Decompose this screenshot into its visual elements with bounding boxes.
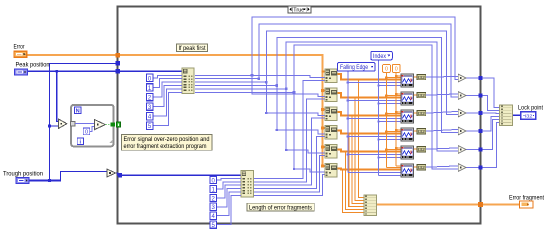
- svg-text:Trough position: Trough position: [3, 171, 44, 178]
- index array 1 (peak positions): [182, 68, 194, 94]
- tunnels: add-triangle outputs on right border: [478, 76, 482, 170]
- svg-text:I32: I32: [418, 111, 425, 116]
- svg-text:Error: Error: [14, 44, 25, 51]
- for loop iteration terminal i: [77, 138, 83, 145]
- wire: 0 to inner triangle lower input: [90, 126, 95, 131]
- to-I32 conversion 6: [417, 165, 426, 170]
- build array (error fragments): [364, 195, 377, 216]
- numeric constant 0 (first): [383, 64, 391, 72]
- svg-text:I32: I32: [418, 75, 425, 80]
- array subset 3: [325, 107, 337, 120]
- wires: index-array-2 element outputs up to array-subset length inputs: [254, 99, 325, 195]
- wire: Peak position I32-array to index-array 1: [28, 70, 182, 72]
- add node on border (trough path): [107, 169, 115, 177]
- to-I32 conversion 5: [417, 147, 426, 152]
- build array (lock points): [500, 105, 513, 126]
- case structure (outer): [118, 7, 481, 224]
- wire: index-array-2 first element riser x=302.4: [254, 81, 325, 179]
- wire: trough branch up x=49.5 to tunnel y=63.4, tap to triangle bottom input: [48, 63, 120, 182]
- trigger detection VI 2: [401, 92, 414, 105]
- index array 2 (trough positions): [241, 171, 254, 198]
- trigger detection VI 5: [401, 146, 414, 159]
- svg-text:0: 0: [395, 67, 398, 73]
- svg-text:I32: I32: [418, 93, 425, 98]
- to-I32 conversion 4: [417, 129, 426, 134]
- wire: boolean result to loop edge: [105, 123, 111, 125]
- array subset 5: [325, 145, 337, 158]
- array subset 2: [325, 88, 337, 101]
- add node 1: [458, 74, 466, 82]
- array subset 4: [325, 126, 337, 139]
- greater-than triangle (in loop): [95, 120, 106, 130]
- to-I32 conversion 1: [417, 75, 426, 80]
- ring constant "Falling Edge": [338, 63, 376, 72]
- trigger detection VI 1: [401, 74, 414, 87]
- control terminal: Error: [14, 44, 27, 58]
- add node 4: [458, 127, 466, 135]
- trigger detection VI 6: [401, 164, 414, 177]
- svg-text:If peak first: If peak first: [179, 46, 206, 52]
- add node 5: [458, 146, 466, 154]
- svg-text:Index: Index: [373, 54, 386, 60]
- wires: riser columns up over the top band down to add-triangle second inputs: [251, 17, 458, 169]
- wire: peak branch down to compare triangle top input: [55, 70, 58, 122]
- numeric constants 0-5 for index array 2: [210, 177, 241, 230]
- for loop: [71, 105, 113, 146]
- wires: index-array-1 element outputs to array-subset 1 inputs: [195, 75, 325, 92]
- to-I32 conversion 2: [417, 93, 426, 98]
- wires: array-subset outputs to trigger-VI inputs, with branches down to bottom build-array: [337, 74, 401, 212]
- array subset 6: [325, 164, 337, 177]
- trigger detection VI 4: [401, 128, 414, 141]
- numeric constant 0 (second): [392, 64, 400, 72]
- wires: VI outputs through I32 conversions to add triangles: [414, 76, 459, 167]
- svg-text:I32: I32: [418, 147, 425, 152]
- indicator terminal: Error fragment: [509, 194, 544, 208]
- svg-text:Lock point: Lock point: [518, 105, 543, 112]
- wire: trough riser x=60.5 to border add node: [61, 172, 108, 181]
- for loop count terminal N: [74, 107, 81, 114]
- add node 6: [458, 164, 466, 172]
- svg-text:0: 0: [85, 130, 88, 136]
- numeric constants 0-5 for index array 1: [146, 74, 182, 130]
- tunnel: Peak in: [116, 69, 121, 74]
- label: Length of error fragments: [247, 203, 314, 211]
- wire: bottom build-array output to Error fragment terminal: [377, 202, 520, 206]
- wire: Trough position I32-array into structure to index-array 2: [27, 173, 241, 181]
- to-I32 conversion 3: [417, 111, 426, 116]
- trigger detection VI 3: [401, 110, 414, 123]
- tunnel on loop left edge: [70, 121, 75, 126]
- wire: Falling Edge ring down x=348 taps to VI condition inputs: [347, 71, 401, 172]
- svg-text:True: True: [293, 7, 304, 13]
- wire: first 0-constant down x=386.3 taps to VI inputs: [385, 73, 401, 168]
- array subset 1: [325, 69, 337, 82]
- compare triangle (left of loop): [59, 119, 67, 128]
- svg-text:I32: I32: [418, 165, 425, 170]
- tunnel: Error in: [116, 53, 121, 58]
- svg-text:Falling Edge: Falling Edge: [340, 65, 369, 71]
- wire: top build-array output to Lock point terminal: [513, 114, 522, 116]
- indicator terminal: Lock point: [518, 105, 543, 120]
- add node 3: [458, 109, 466, 117]
- tunnel: boolean out of loop: [111, 122, 115, 126]
- label: Error signal over-zero position and error fragment extraction program: [121, 135, 212, 151]
- svg-text:N: N: [76, 108, 80, 114]
- tunnel: error fragment out: [478, 202, 483, 207]
- wire: second 0-constant down x=396.1 taps to VI level inputs: [395, 73, 401, 167]
- wires: add-triangle outputs to border tunnels and on to top build-array: [466, 78, 500, 168]
- svg-text:error fragment extraction prog: error fragment extraction program: [124, 144, 207, 150]
- wire: Error DBL-array from terminal into structure, down x=322.5, taps to array-subset inputs: [27, 55, 325, 167]
- svg-text:I32: I32: [418, 129, 425, 134]
- wire: loop tunnel to inner triangle: [75, 123, 95, 125]
- add node 2: [458, 92, 466, 100]
- case selector label "True": [288, 6, 311, 14]
- wire: Index ring down x=378.5 taps to VI index inputs: [377, 60, 401, 176]
- wires: riser columns down to array-subset index inputs: [252, 75, 325, 172]
- ring constant "Index": [371, 51, 393, 60]
- numeric constant 0 (in loop): [83, 128, 90, 135]
- svg-text:I32: I32: [525, 114, 533, 120]
- control terminal: Peak position: [15, 62, 51, 75]
- case selector terminal: [117, 122, 121, 127]
- svg-text:Length of error fragments: Length of error fragments: [249, 205, 312, 211]
- svg-text:0: 0: [385, 67, 388, 73]
- svg-text:Error signal over-zero positio: Error signal over-zero position and: [124, 137, 210, 143]
- svg-text:Peak position: Peak position: [16, 62, 51, 69]
- control terminal: Trough position: [3, 171, 44, 184]
- label: If peak first: [177, 44, 208, 52]
- tunnel: trough-branch in: [116, 61, 121, 66]
